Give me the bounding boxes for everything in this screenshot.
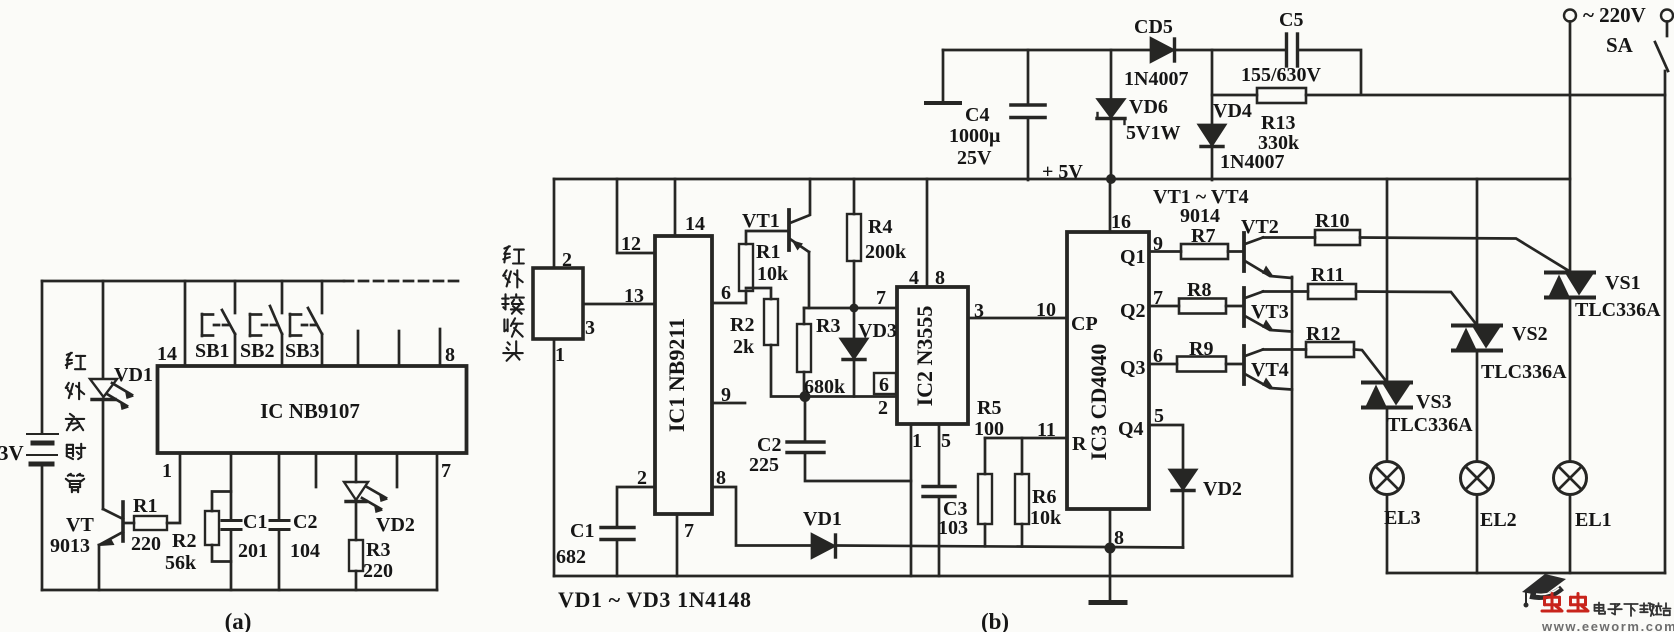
triac VS1 TLC336A: [1546, 273, 1594, 298]
svg-text:2: 2: [878, 397, 888, 419]
svg-text:12: 12: [621, 233, 641, 255]
wire: R10 to VS1 gate: [1360, 238, 1569, 272]
svg-text:R13: R13: [1261, 112, 1295, 134]
wire: VD2 column: [355, 454, 358, 482]
svg-text:EL1: EL1: [1575, 509, 1612, 531]
svg-text:SB2: SB2: [240, 340, 274, 362]
svg-text:Q3: Q3: [1120, 357, 1146, 379]
watermark: chongchong red text: [1542, 594, 1562, 612]
svg-text:1N4007: 1N4007: [1124, 68, 1188, 90]
svg-text:VD4: VD4: [1213, 100, 1252, 122]
transistor VT2 9014: [1244, 233, 1292, 278]
svg-text:R: R: [1072, 433, 1087, 455]
resistor R12: [1306, 342, 1354, 357]
switch SA: [1655, 22, 1668, 96]
triac VS2 TLC336A: [1453, 326, 1501, 351]
svg-text:TLC336A: TLC336A: [1481, 361, 1567, 383]
lamp EL1: [1554, 462, 1587, 495]
svg-text:25V: 25V: [957, 147, 992, 169]
switch SB3: [290, 281, 322, 366]
svg-text:C1: C1: [243, 511, 267, 533]
svg-text:3: 3: [974, 300, 984, 322]
svg-text:8: 8: [1114, 527, 1124, 549]
transistor VT 9013: [99, 502, 123, 590]
node: junction dot VD6/IC3 pin16 on +5V rail: [1106, 174, 1116, 184]
svg-text:VS3: VS3: [1416, 391, 1452, 413]
svg-text:1N4007: 1N4007: [1220, 151, 1284, 173]
watermark: dianzi xiazaizhan text: [1595, 603, 1606, 614]
svg-text:682: 682: [556, 546, 586, 568]
resistor R11: [1308, 284, 1356, 299]
svg-text:7: 7: [876, 287, 886, 309]
wire: R3 to bottom rail: [355, 571, 358, 590]
wire: top pin stub: [398, 331, 401, 366]
svg-text:IC3 CD4040: IC3 CD4040: [1086, 344, 1111, 461]
svg-text:Q2: Q2: [1120, 300, 1146, 322]
wire: R1 to IC pin1: [167, 454, 180, 523]
wire: R9 to VT4 base: [1226, 363, 1242, 366]
zener VD6 5V1W: [1097, 50, 1125, 180]
svg-text:VT2: VT2: [1241, 216, 1279, 238]
wire: bottom pin stub: [396, 454, 399, 487]
svg-text:TLC336A: TLC336A: [1575, 299, 1661, 321]
wire: VS3 column from rail: [1386, 179, 1389, 382]
node: junction dot pin8/VD2 line: [1105, 543, 1116, 554]
svg-text:R2: R2: [730, 314, 754, 336]
LED VD2: [344, 482, 388, 513]
wire: IC3 pin16 to +5V rail: [1109, 179, 1112, 232]
wire: circuit-a top rail dashed segment: [344, 280, 461, 283]
switch SB2: [250, 281, 282, 366]
wire: VT3 collector to R11: [1263, 290, 1308, 293]
svg-text:1000μ: 1000μ: [949, 125, 1001, 147]
svg-text:C4: C4: [965, 104, 989, 126]
svg-text:R10: R10: [1315, 210, 1349, 232]
svg-text:R9: R9: [1189, 338, 1213, 360]
diode VD4 1N4007: [1199, 50, 1225, 180]
svg-text:VD2: VD2: [376, 514, 415, 536]
svg-text:R5: R5: [977, 397, 1001, 419]
resistor R3 220: [349, 540, 363, 571]
svg-text:C2: C2: [293, 511, 317, 533]
label: hongwai jieshoutou (IR receiver head): [503, 246, 524, 263]
diode VD1 1N4148: [812, 535, 836, 558]
node: supply input terminal bar: [942, 50, 945, 103]
wire: top pin stub: [357, 331, 360, 366]
wire: IC1 pin14 to rail: [674, 179, 677, 236]
svg-text:1: 1: [162, 460, 172, 482]
wire: IC3 Q4 pin5 to VD2: [1149, 425, 1183, 470]
resistor R7: [1181, 244, 1228, 259]
switch SB1: [202, 281, 235, 366]
wire: pin 14 vertical: [184, 281, 187, 366]
wire: receiver pin3 to IC1 pin13: [583, 303, 655, 306]
svg-text:R8: R8: [1187, 279, 1211, 301]
wire: EL3 to lamp rail: [1386, 495, 1389, 574]
IC2 N3555 box: [897, 287, 968, 424]
svg-text:VT4: VT4: [1251, 359, 1289, 381]
IC NB9107: [158, 366, 467, 453]
svg-text:VS2: VS2: [1512, 323, 1548, 345]
svg-text:220: 220: [131, 533, 161, 555]
diode VD3 1N4148: [841, 308, 867, 397]
svg-text:www.eeworm.com: www.eeworm.com: [1541, 619, 1674, 632]
svg-text:R7: R7: [1191, 225, 1215, 247]
svg-text:VT1: VT1: [742, 210, 780, 232]
wire: VD1 anode column: [102, 281, 105, 378]
svg-text:10k: 10k: [1030, 507, 1062, 529]
svg-text:VD1 ~ VD3 1N4148: VD1 ~ VD3 1N4148: [558, 587, 752, 612]
wire: circuit-a bottom rail: [42, 589, 437, 592]
IC3 CD4040 box: [1067, 232, 1149, 509]
svg-text:R1: R1: [133, 495, 157, 517]
svg-text:10: 10: [1036, 299, 1056, 321]
node: junction dot R2/R3/C2: [800, 391, 811, 402]
resistor R13 330k: [1257, 88, 1306, 103]
svg-text:6: 6: [1153, 345, 1163, 367]
wire: IC1 pin7 to ground rail: [676, 514, 679, 576]
lamp EL3: [1371, 462, 1404, 495]
svg-text:7: 7: [1153, 287, 1163, 309]
wire: R13 to SA line: [1306, 94, 1664, 97]
resistor R5 100: [978, 438, 992, 546]
wire: IC1 pin6 to R1/R2 junction: [712, 291, 746, 303]
IR receiver head box: [533, 268, 583, 339]
svg-text:Q4: Q4: [1118, 418, 1144, 440]
resistor R1 220: [134, 516, 167, 530]
wire: VT4 collector to R12: [1263, 348, 1306, 351]
capacitor C5 155/630V: [1287, 34, 1298, 66]
svg-text:9014: 9014: [1180, 205, 1220, 227]
wire: EL1 to lamp rail: [1569, 495, 1572, 574]
wire: left mains lead down to rail: [1569, 22, 1572, 273]
svg-text:13: 13: [624, 285, 644, 307]
svg-text:SB1: SB1: [195, 340, 229, 362]
diode VD2 1N4148: [1170, 470, 1196, 548]
svg-text:R1: R1: [756, 241, 780, 263]
resistor R2 56k: [205, 492, 231, 562]
wire: IC3 Q1 pin9 to R7: [1149, 250, 1181, 253]
svg-text:VS1: VS1: [1605, 272, 1641, 294]
wire: IC2 pins 4/8 to rail: [926, 179, 929, 287]
resistor R2 2k: [764, 299, 778, 345]
svg-text:IC2 N3555: IC2 N3555: [912, 306, 937, 407]
wire: R13 line at y95: [1212, 94, 1257, 97]
svg-text:1: 1: [912, 430, 922, 452]
watermark: graduation cap logo: [1522, 574, 1566, 608]
wire: EL2 to lamp rail: [1476, 495, 1479, 574]
wire: R5/R6 top to IC3 R pin11: [985, 437, 1067, 440]
svg-text:330k: 330k: [1258, 132, 1300, 154]
svg-text:R3: R3: [816, 315, 840, 337]
resistor R6 10k: [1015, 438, 1029, 547]
svg-text:103: 103: [938, 517, 968, 539]
wire: VS2 to EL2: [1476, 350, 1479, 462]
diode CD5 1N4007: [1151, 39, 1175, 62]
svg-text:VD1: VD1: [114, 364, 153, 386]
svg-text:11: 11: [1037, 419, 1056, 441]
svg-text:VT: VT: [66, 514, 94, 536]
wire: IC3 pin8 to ground symbol: [1109, 509, 1112, 601]
svg-text:R6: R6: [1032, 486, 1056, 508]
svg-text:104: 104: [290, 540, 320, 562]
capacitor C4 1000u 25V: [1011, 50, 1045, 180]
svg-text:200k: 200k: [865, 241, 907, 263]
wire: R7 to VT2 base: [1228, 250, 1242, 253]
svg-text:9: 9: [1153, 233, 1163, 255]
svg-text:R2: R2: [172, 530, 196, 552]
IC1 NB9211 box: [655, 236, 712, 514]
svg-text:56k: 56k: [165, 552, 197, 574]
svg-text:VD1: VD1: [803, 508, 842, 530]
resistor R1 10k: [739, 244, 753, 291]
svg-text:C5: C5: [1279, 9, 1303, 31]
svg-text:5: 5: [1154, 405, 1164, 427]
wire: emitter line to IC2 pin7: [804, 307, 897, 310]
ground: [1091, 600, 1125, 605]
svg-text:VT3: VT3: [1251, 301, 1289, 323]
svg-text:SA: SA: [1606, 33, 1634, 57]
svg-text:2: 2: [562, 249, 572, 271]
svg-text:680k: 680k: [804, 376, 846, 398]
capacitor C1 201: [222, 521, 241, 530]
svg-text:2: 2: [637, 467, 647, 489]
wire: IC3 Q3 pin6 to R9: [1149, 363, 1177, 366]
wire: VS1 to EL1: [1569, 297, 1572, 462]
svg-text:R3: R3: [366, 539, 390, 561]
svg-text:R12: R12: [1306, 323, 1340, 345]
svg-text:100: 100: [974, 418, 1004, 440]
wire: VS2 column from rail: [1476, 179, 1479, 325]
svg-text:9013: 9013: [50, 535, 90, 557]
svg-text:IC NB9107: IC NB9107: [260, 399, 360, 423]
wire: C2 pin column: [278, 454, 281, 520]
svg-text:6: 6: [721, 282, 731, 304]
svg-text:1: 1: [555, 344, 565, 366]
svg-text:5: 5: [941, 430, 951, 452]
svg-text:225: 225: [749, 454, 779, 476]
svg-text:8: 8: [716, 467, 726, 489]
svg-text:(b): (b): [981, 609, 1009, 632]
resistor R8: [1179, 299, 1226, 314]
wire: pin2 line into IC2: [805, 395, 897, 398]
LED VD1 (infrared emitter): [90, 379, 134, 410]
svg-text:8: 8: [445, 344, 455, 366]
wire: IC2 pin3 to IC3 CP: [968, 317, 1067, 320]
svg-text:5V1W: 5V1W: [1126, 122, 1180, 144]
wire: VD1 cathode to VT collector: [102, 399, 105, 509]
svg-text:155/630V: 155/630V: [1241, 64, 1322, 86]
capacitor C2 225: [787, 397, 911, 482]
svg-text:7: 7: [684, 520, 694, 542]
wire: VT2 collector to R10: [1263, 236, 1315, 239]
lamp EL2: [1461, 462, 1494, 495]
svg-text:9: 9: [721, 384, 731, 406]
svg-text:VD6: VD6: [1129, 96, 1168, 118]
svg-text:3: 3: [585, 317, 595, 339]
svg-text:CP: CP: [1071, 313, 1098, 335]
resistor R10: [1315, 230, 1360, 245]
wire: R2 branch: [746, 288, 771, 299]
capacitor C2 104: [270, 521, 289, 530]
svg-text:TLC336A: TLC336A: [1387, 414, 1473, 436]
svg-text:201: 201: [238, 540, 268, 562]
wire: IC1 pin8 down to VD1: [712, 487, 812, 546]
wire: IC1 pin12 to rail: [617, 179, 655, 253]
battery 3V: [27, 434, 58, 464]
wire: ground rail (logic): [554, 575, 1292, 578]
svg-text:8: 8: [935, 267, 945, 289]
svg-text:EL2: EL2: [1480, 509, 1517, 531]
svg-text:C1: C1: [570, 520, 594, 542]
transistor VT4 9014: [1244, 346, 1292, 390]
svg-text:R4: R4: [868, 216, 892, 238]
wire: IC pin1 column with R2 and C1: [230, 454, 233, 520]
wire: bottom pin stub: [315, 454, 318, 487]
wire: common emitter vertical: [1291, 277, 1294, 576]
terminal: ~220V right: [1661, 10, 1673, 22]
wire: IC2 pin1 down to ground rail: [910, 424, 913, 576]
wire: circuit-a left vertical: [41, 281, 44, 433]
resistor R4 200k: [847, 179, 861, 308]
svg-text:(a): (a): [225, 609, 252, 632]
wire: receiver pin1 to ground rail: [553, 339, 556, 576]
svg-text:VD3: VD3: [858, 320, 897, 342]
svg-text:6: 6: [879, 374, 889, 396]
wire: VS3 to EL3: [1386, 407, 1389, 462]
wire: VD1 cathode line to VD2: [836, 546, 1183, 548]
svg-text:+ 5V: + 5V: [1042, 161, 1083, 183]
wire: lamp common rail: [1387, 572, 1665, 575]
svg-text:VD2: VD2: [1203, 478, 1242, 500]
capacitor C1 682: [601, 528, 634, 577]
svg-text:R11: R11: [1311, 264, 1344, 286]
svg-text:14: 14: [685, 213, 705, 235]
wire: pin 8 stub: [439, 329, 442, 366]
wire: R1 top to VT1 base: [746, 231, 787, 244]
wire: rectifier top line: [943, 49, 1286, 52]
wire: right mains vertical down to lamp rail: [1664, 95, 1667, 573]
wire: IC1 pin2 to C1: [617, 487, 655, 527]
svg-text:4: 4: [909, 267, 919, 289]
wire: R2 bottom to junction: [771, 345, 805, 397]
svg-text:SB3: SB3: [285, 340, 319, 362]
wire: VD2 to R3: [355, 502, 358, 540]
resistor R9: [1177, 357, 1226, 372]
pin label box 6 on IC2: [874, 373, 896, 394]
wire: pin 7 vertical: [436, 454, 439, 590]
wire: IC3 Q2 pin7 to R8: [1149, 305, 1179, 308]
transistor VT3 9014: [1244, 288, 1292, 332]
svg-text:EL3: EL3: [1384, 507, 1421, 529]
svg-text:14: 14: [157, 343, 177, 365]
wire: circuit-a top rail: [42, 280, 344, 283]
wire: receiver pin2 to +5V rail: [553, 179, 556, 268]
svg-text:7: 7: [441, 460, 451, 482]
svg-text:16: 16: [1111, 211, 1131, 233]
triac VS3 TLC336A: [1363, 383, 1411, 408]
capacitor C3 103: [923, 424, 955, 576]
svg-text:10k: 10k: [757, 263, 789, 285]
wire: VT base to R1: [123, 522, 134, 525]
svg-text:CD5: CD5: [1134, 16, 1173, 38]
svg-text:C2: C2: [757, 434, 781, 456]
svg-text:220: 220: [363, 560, 393, 582]
wire: R11 to VS2 gate: [1356, 292, 1476, 325]
resistor R3 680k: [797, 308, 811, 397]
terminal: ~220V left: [1564, 10, 1576, 22]
svg-text:3V: 3V: [0, 441, 24, 465]
node: junction dot R4/VD3/pin7: [850, 304, 859, 313]
svg-text:IC1 NB9211: IC1 NB9211: [664, 318, 689, 432]
wire: IC1 pin9 stub: [712, 402, 745, 405]
svg-text:2k: 2k: [733, 336, 755, 358]
wire: +5V rail: [554, 178, 1570, 181]
label: hongwai fasheguan (IR emitter tube): [66, 353, 85, 369]
wire: R8 to VT3 base: [1226, 305, 1242, 308]
wire: R12 to VS3 gate: [1354, 350, 1386, 382]
svg-text:Q1: Q1: [1120, 246, 1146, 268]
transistor VT1 9014: [789, 179, 810, 308]
svg-text:~ 220V: ~ 220V: [1583, 3, 1646, 27]
